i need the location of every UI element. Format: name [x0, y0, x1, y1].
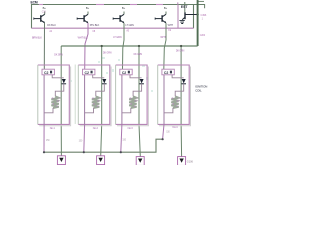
junction dot bus/branch 4	[180, 45, 182, 47]
svg-text:B+: B+	[43, 6, 47, 10]
ground G1	[57, 156, 65, 165]
bottom return bus	[44, 139, 163, 152]
svg-text:COIL: COIL	[195, 88, 202, 92]
svg-text:C496: C496	[201, 14, 207, 17]
ground G2	[97, 156, 105, 165]
top-right stub	[198, 0, 204, 2]
svg-text:DK GRN: DK GRN	[176, 51, 185, 53]
transistor Q2	[77, 12, 88, 24]
svg-text:DK GRN: DK GRN	[54, 55, 63, 57]
ignition driver Q5	[178, 2, 198, 24]
feed branch 4	[180, 46, 183, 157]
svg-text:No.1: No.1	[50, 127, 56, 130]
svg-text:WHT: WHT	[168, 24, 174, 27]
ECM partition	[177, 5, 179, 29]
svg-text:PPL BLK: PPL BLK	[90, 24, 100, 27]
ECM output wire 4	[164, 23, 166, 69]
injector no.4 box	[158, 65, 191, 126]
svg-text:DK BLU: DK BLU	[47, 24, 56, 27]
svg-text:B+: B+	[86, 6, 90, 10]
injector no.1 box	[38, 65, 71, 126]
ECM output wire 3	[123, 23, 125, 69]
junction dot return bus exit 4	[162, 138, 164, 140]
svg-text:B+: B+	[164, 6, 168, 10]
transistor Q4	[155, 12, 166, 24]
svg-text:B+: B+	[122, 6, 126, 10]
injector no.2 box	[78, 65, 111, 126]
junction dot return bus exit 2	[83, 151, 85, 153]
svg-text:C203: C203	[200, 35, 206, 37]
faint between-box verticals	[74, 65, 76, 125]
injector feed bus	[61, 45, 197, 47]
svg-text:DK GRN: DK GRN	[103, 53, 112, 55]
junction dot return bus exit 1	[43, 151, 45, 153]
feed branch 3	[139, 46, 140, 157]
svg-text:BRN BLK: BRN BLK	[32, 36, 42, 39]
ECM top edge extension tab	[194, 5, 205, 9]
feed branch 1 (bus left elbow down through injector 1 to ground)	[60, 46, 62, 156]
ignition feed thick line	[197, 0, 199, 46]
junction dot Q5 collector to ignition line	[196, 13, 198, 15]
svg-text:No.4: No.4	[173, 126, 179, 129]
feed branch 2	[101, 46, 102, 156]
exit 4	[163, 124, 164, 139]
svg-text:LT GRN: LT GRN	[125, 24, 134, 27]
ECM box top,left,right	[32, 5, 194, 29]
svg-text:WHT: WHT	[160, 36, 166, 39]
ECM box bottom edge	[32, 27, 194, 29]
transistor Q1	[34, 12, 45, 24]
injector no.3 box	[116, 65, 149, 126]
svg-text:EST: EST	[181, 5, 188, 9]
junction dot bus/branch 2	[101, 45, 103, 47]
transistor Q3	[113, 12, 124, 24]
ground G3	[136, 157, 144, 166]
svg-text:LT GRN: LT GRN	[113, 36, 122, 39]
svg-text:No.3: No.3	[128, 127, 134, 130]
purple flecks on top edge	[39, 4, 163, 6]
exit 2	[83, 124, 86, 152]
ground G4	[178, 157, 186, 166]
ECM output wire 2	[85, 23, 88, 69]
svg-text:No.2: No.2	[93, 127, 99, 130]
svg-text:DK GRN: DK GRN	[134, 54, 143, 56]
ECM output wire 1	[43, 23, 45, 69]
svg-text:WHT BLK: WHT BLK	[78, 36, 89, 39]
junction dot return bus exit 3	[120, 151, 122, 153]
svg-text:G106: G106	[187, 159, 194, 163]
junction dot bus/branch 3	[138, 45, 140, 47]
exit 3	[121, 124, 122, 152]
scan noise specks	[70, 57, 153, 92]
exit 1	[43, 124, 45, 152]
